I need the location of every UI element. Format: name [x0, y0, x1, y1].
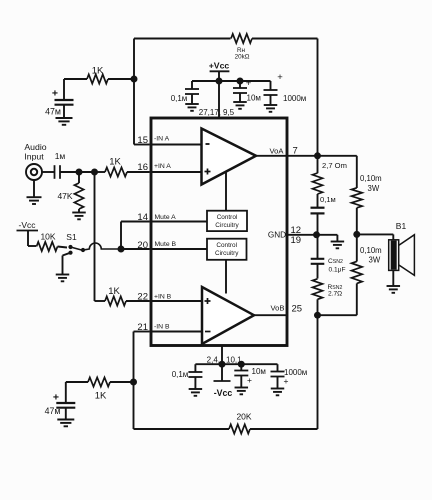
ground below C1 — [56, 117, 73, 119]
svg-text:-IN A: -IN A — [154, 136, 170, 143]
wire node to R2 — [95, 171, 106, 173]
wire S1 to mute node with hop over input bus — [85, 243, 122, 250]
svg-text:Control: Control — [216, 242, 237, 249]
wire connector to C2 — [42, 171, 55, 173]
svg-text:20: 20 — [137, 240, 148, 251]
wire C4 to ground — [191, 94, 193, 104]
wire C9 to ground — [194, 377, 196, 389]
node GND / snubber bus — [313, 231, 320, 238]
svg-text:14: 14 — [137, 212, 148, 223]
wire R2 to pin16 — [127, 171, 150, 173]
op-amp B plus sign — [205, 300, 211, 302]
wire gnd symbol drop — [336, 235, 338, 241]
capacitor C9 0,1M bottom — [188, 371, 202, 373]
wire 47K to ground — [78, 209, 80, 212]
wire Vcc feed into IC — [218, 81, 220, 117]
op-amp B minus sign — [205, 331, 211, 333]
wire mute B control drop — [225, 260, 227, 294]
wire pin21 horizontal — [134, 331, 150, 333]
control circuitry box A — [207, 211, 247, 231]
switch S1 contact upper — [68, 245, 72, 249]
wire C10 to ground — [240, 376, 242, 388]
capacitor C4 0,1M — [185, 88, 199, 90]
wire RE2 to VoB row — [356, 283, 358, 315]
wire 0,1M bottom drop — [194, 364, 196, 371]
svg-text:21: 21 — [137, 322, 148, 333]
svg-text:0.1μF: 0.1μF — [329, 267, 346, 274]
capacitor C10 10M bottom — [234, 370, 248, 372]
wire mute node to pin20 — [121, 248, 150, 250]
svg-text:S1: S1 — [66, 232, 77, 242]
wire 47K lead — [78, 172, 80, 183]
svg-text:GND: GND — [268, 230, 286, 239]
svg-text:3W: 3W — [368, 184, 380, 193]
wire R1 to left bus — [108, 78, 134, 80]
svg-text:B1: B1 — [396, 221, 407, 231]
resistor R4 10K — [37, 242, 58, 251]
wire R8 to C7 — [317, 194, 319, 208]
wire left bus top segment — [133, 39, 135, 145]
wire -INB inside — [151, 331, 202, 333]
svg-text:Input: Input — [24, 152, 44, 162]
svg-text:-Vcc: -Vcc — [19, 220, 37, 230]
wire +Vcc stem — [218, 72, 220, 82]
svg-text:22: 22 — [137, 292, 148, 303]
node input B — [91, 169, 98, 176]
svg-text:CSN2: CSN2 — [328, 258, 343, 265]
wire RE1 to speaker node — [356, 208, 358, 235]
svg-text:Mute B: Mute B — [155, 241, 177, 248]
capacitor C6 1000M — [264, 89, 278, 91]
capacitor C3 47M (bottom-left electrolytic) — [56, 402, 75, 404]
wire bus corner to R5 — [95, 300, 106, 302]
speaker B1 coil fill — [391, 241, 397, 270]
svg-text:Circuitry: Circuitry — [215, 222, 239, 229]
wire 10M cap drop — [239, 81, 241, 88]
ground below C5 — [233, 101, 247, 103]
resistor R12 20K (feedback B) — [229, 424, 250, 433]
resistor R11 0,10m 3W (lower) — [352, 261, 363, 283]
svg-text:1K: 1K — [109, 157, 121, 168]
wire C7 to gnd node — [317, 213, 319, 234]
svg-text:0,1м: 0,1м — [171, 94, 188, 103]
svg-text:0,1м: 0,1м — [320, 195, 336, 204]
svg-text:2,4,: 2,4, — [207, 356, 220, 365]
svg-text:1K: 1K — [108, 286, 120, 297]
svg-text:0,1м: 0,1м — [172, 370, 189, 379]
-Vcc bar — [214, 380, 231, 382]
ground below C11 — [271, 388, 285, 390]
wire C6 to ground — [270, 95, 272, 105]
svg-text:15: 15 — [137, 135, 148, 146]
wire C11 to ground — [277, 377, 279, 389]
capacitor C1 47M (top-left electrolytic) — [55, 99, 74, 101]
svg-text:47м: 47м — [45, 406, 61, 416]
wire +INB inside — [151, 300, 202, 302]
svg-text:+: + — [53, 392, 59, 404]
resistor R6 1K (bottom-left) — [88, 377, 110, 386]
wire +INA inside — [151, 171, 202, 173]
svg-text:27,17,: 27,17, — [199, 108, 221, 117]
+Vcc bar — [210, 70, 230, 72]
IC U1 body — [151, 118, 287, 346]
svg-text:+IN A: +IN A — [154, 163, 171, 170]
svg-text:20K: 20K — [236, 412, 251, 422]
speaker B1 coil outline — [389, 240, 399, 271]
svg-text:9,5: 9,5 — [223, 108, 235, 117]
svg-text:3W: 3W — [369, 256, 381, 265]
wire R6 to C3 — [66, 381, 88, 383]
connector J1 outer circle — [26, 164, 42, 180]
node VoB — [314, 312, 321, 319]
wire mute A control drop — [225, 173, 227, 211]
switch S1 contact lower — [68, 251, 72, 255]
capacitor C8 Csn2 — [311, 258, 325, 260]
wire 1000M bottom drop — [277, 364, 279, 371]
wire input bus — [94, 172, 96, 301]
wire connector to ground — [33, 180, 35, 197]
wire pin15 horizontal — [134, 144, 150, 146]
wire top feedback right — [252, 38, 318, 40]
wire R5 to pin22 — [126, 300, 150, 302]
svg-text:+: + — [284, 376, 289, 386]
wire VoB node down right bus — [317, 315, 319, 429]
wire top-left from C1 to R1 — [64, 78, 87, 80]
svg-text:16: 16 — [137, 162, 148, 173]
wire C2 to node — [60, 171, 95, 173]
svg-text:Control: Control — [217, 214, 238, 221]
ground below C10 — [235, 387, 249, 389]
wire pin14 horizontal — [121, 221, 150, 223]
svg-text:-Vcc: -Vcc — [214, 388, 233, 398]
svg-text:10м: 10м — [252, 367, 266, 376]
node bottom rail / -Vcc — [219, 361, 226, 368]
bottom rail — [195, 363, 277, 365]
svg-text:+: + — [52, 88, 58, 100]
ground symbol right of IC — [331, 241, 345, 243]
node junction R6 / left bus — [130, 379, 137, 386]
svg-text:Audio: Audio — [24, 142, 46, 152]
ground below C4 — [185, 103, 199, 105]
-Vcc stem — [221, 364, 223, 381]
resistor R5 1K (input B) — [105, 296, 126, 305]
wire gnd node down — [317, 235, 319, 259]
svg-text:47м: 47м — [45, 107, 61, 117]
svg-text:+IN B: +IN B — [154, 294, 172, 301]
wire speaker node down — [356, 234, 358, 261]
ground below 47K — [72, 212, 86, 214]
svg-text:+Vcc: +Vcc — [209, 61, 230, 71]
resistor R1 1K (top-left) — [87, 74, 108, 83]
node mute tie — [118, 246, 125, 253]
resistor R3 47K (input bias) — [74, 183, 83, 209]
wire right bus top segment — [317, 39, 319, 156]
resistor R2 1K (input A) — [105, 167, 127, 176]
wire R4 to switch — [58, 247, 68, 248]
wire -Vcc to R4 — [27, 231, 29, 247]
ground below connector J1 — [27, 196, 42, 198]
svg-text:1000м: 1000м — [283, 94, 306, 103]
+Vcc rail — [192, 80, 271, 82]
ground below C3 — [57, 419, 74, 421]
wire bottom feedback left — [134, 428, 230, 430]
resistor R9 Rsn2 (snubber) — [313, 279, 323, 300]
svg-text:47K: 47K — [57, 191, 72, 201]
op-amp A plus sign — [205, 171, 211, 173]
svg-text:+: + — [277, 72, 283, 83]
wire VoA to right bus — [287, 155, 318, 157]
svg-text:10K: 10K — [40, 232, 55, 242]
wire IC bottom feed — [221, 346, 223, 365]
wire mute A vertical — [120, 222, 122, 250]
wire 1000M cap drop — [270, 81, 272, 90]
svg-text:Circuitry: Circuitry — [215, 250, 239, 257]
capacitor C5 10M — [233, 87, 247, 89]
resistor R7 Rn 20kOhm (feedback A) — [231, 34, 252, 43]
speaker B1 cone — [399, 235, 415, 276]
node speaker junction — [353, 231, 360, 238]
ground below C9 — [189, 388, 203, 390]
node VoA — [314, 152, 321, 159]
wire GND out — [287, 234, 337, 236]
ground below S1 — [56, 274, 70, 276]
wire R9 to VoB node — [317, 299, 319, 315]
resistor R8 2,7 Ohm — [313, 173, 323, 194]
wire op-amp B output — [254, 314, 287, 316]
wire pin21 down left bus — [133, 332, 135, 430]
wire lower contact to ground — [63, 253, 71, 256]
wire 10M bottom drop — [240, 364, 242, 370]
svg-text:19: 19 — [291, 235, 302, 246]
wire op-amp A output — [256, 155, 287, 157]
-Vcc rail bar — [17, 230, 39, 232]
svg-text:0,10m: 0,10m — [360, 174, 382, 183]
wire C1 lead — [63, 79, 65, 99]
resistor R10 0,10m 3W (upper) — [352, 188, 363, 208]
op-amp A triangle — [202, 129, 257, 185]
node +Vcc / 10M cap — [237, 78, 244, 85]
op-amp A minus sign — [206, 143, 210, 145]
wire C1 to ground — [63, 105, 65, 118]
svg-text:Mute A: Mute A — [155, 214, 177, 221]
switch S1 throw contact — [81, 248, 85, 252]
wire muteB into box — [151, 248, 207, 250]
wire to speaker B1 — [357, 233, 394, 235]
svg-text:20kΩ: 20kΩ — [235, 53, 250, 60]
svg-text:-IN B: -IN B — [154, 324, 170, 331]
wire C3 to ground — [65, 409, 67, 420]
ground below C6 — [264, 104, 278, 106]
svg-text:1K: 1K — [92, 66, 104, 77]
wire bottom feedback right — [250, 428, 318, 430]
svg-text:2,7 Om: 2,7 Om — [322, 161, 347, 170]
op-amp B triangle — [202, 287, 254, 344]
svg-text:25: 25 — [292, 304, 303, 315]
capacitor C7 0,1M (zobel A) — [311, 207, 325, 209]
capacitor C2 1M (input coupling) — [54, 165, 56, 179]
wire muteA into box — [151, 221, 207, 223]
node bottom rail / 10M — [238, 361, 245, 368]
capacitor C11 1000M bottom — [271, 371, 285, 373]
wire VoA node down — [317, 156, 319, 173]
wire top feedback left — [134, 38, 231, 40]
connector J1 inner circle — [31, 169, 37, 175]
node junction left bus / R1 — [131, 76, 138, 83]
wire VoA node to RE1 — [318, 155, 357, 157]
svg-text:1м: 1м — [55, 151, 66, 161]
svg-text:10м: 10м — [247, 94, 261, 103]
svg-text:VoA: VoA — [270, 147, 285, 156]
control circuitry box B — [207, 239, 247, 260]
svg-text:VoB: VoB — [271, 304, 285, 313]
wire 0,1M cap drop — [191, 81, 193, 89]
switch S1 arm — [71, 247, 82, 250]
svg-text:0,10m: 0,10m — [360, 246, 382, 255]
wire -INA inside — [151, 144, 202, 146]
node input A — [76, 169, 83, 176]
wire C5 to ground — [239, 93, 241, 102]
svg-text:1K: 1K — [95, 391, 107, 402]
ground below speaker — [387, 285, 401, 287]
svg-text:+: + — [247, 375, 252, 385]
svg-text:2.7Ω: 2.7Ω — [328, 291, 342, 298]
wire R6 to bus — [110, 381, 134, 383]
node +Vcc / IC feed — [216, 78, 223, 85]
wire speaker to ground — [392, 270, 394, 285]
wire C8 to R9 — [317, 264, 319, 279]
